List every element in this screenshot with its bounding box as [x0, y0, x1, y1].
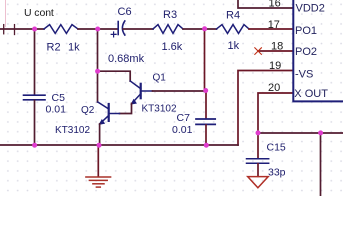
wire C6 to R3: [123, 28, 153, 30]
svg-text:0.68mk: 0.68mk: [108, 53, 145, 65]
op-amp U1 IC body edge: [293, 0, 343, 101]
node R3/R4 junction: [202, 26, 207, 31]
svg-text:C6: C6: [118, 6, 132, 18]
resistor R4: [217, 25, 250, 34]
capacitor C5 plates: [24, 95, 46, 100]
no-connect X on pin 18: [255, 48, 262, 55]
svg-text:R4: R4: [226, 10, 240, 22]
svg-text:-VS: -VS: [295, 69, 313, 81]
svg-text:0.01: 0.01: [46, 104, 67, 116]
tick mark 2 on left wire: [14, 25, 16, 35]
node junction dots: [32, 26, 323, 147]
svg-text:1.6k: 1.6k: [162, 41, 183, 53]
wire R3 to R4: [183, 28, 217, 30]
svg-text:VDD2: VDD2: [296, 3, 325, 15]
faint leftover selection line top-left: [5, 0, 7, 27]
ground (triangle) under C15: [248, 177, 269, 188]
earth ground symbol: [86, 177, 111, 187]
C6 plus sign: [111, 32, 116, 37]
svg-text:20: 20: [268, 82, 280, 94]
svg-text:0.01: 0.01: [172, 124, 193, 136]
wire R3/R4 junction down to node B: [204, 29, 206, 91]
svg-text:R3: R3: [163, 9, 177, 21]
wire R2 to C6: [78, 28, 117, 30]
node C15 junction: [256, 130, 261, 135]
svg-text:Q1: Q1: [153, 72, 167, 83]
wire C7 to bottom net: [205, 125, 207, 145]
bottom ground net wire: [0, 144, 238, 146]
svg-text:KT3102: KT3102: [55, 125, 90, 136]
svg-text:Q2: Q2: [81, 105, 95, 116]
svg-text:PO2: PO2: [295, 46, 317, 58]
resistor R2: [44, 25, 78, 34]
svg-text:R2: R2: [47, 42, 61, 54]
svg-text:C7: C7: [177, 112, 191, 124]
wire top net down to node A: [97, 29, 99, 71]
svg-text:33p: 33p: [268, 167, 286, 179]
node Q2 emitter junction: [97, 143, 102, 148]
wire C15 net to right edge: [258, 132, 343, 134]
resistor R3: [153, 25, 183, 34]
transistor Q2: [98, 102, 120, 124]
wire bottom net to earth ground: [97, 145, 99, 177]
tick mark 1 on left wire: [3, 25, 5, 34]
svg-text:1k: 1k: [228, 40, 240, 52]
capacitor C15 plates: [247, 159, 269, 164]
wire node A to Q1 collector: [98, 71, 131, 81]
wire pin 20 X OUT down to C15 net: [258, 93, 293, 133]
wire Q1 base to node B: [153, 90, 206, 92]
wire C5 to bottom net: [34, 100, 36, 145]
transistor Q1: [130, 81, 152, 104]
capacitor C7 plates: [196, 119, 215, 124]
svg-text:KT3102: KT3102: [142, 104, 177, 115]
svg-text:18: 18: [271, 41, 283, 53]
wire Q1 emitter to Q2 base: [120, 104, 132, 114]
node before C6: [95, 27, 100, 32]
node right-bottom junction: [318, 130, 323, 135]
node top-left junction: [32, 27, 37, 32]
svg-text:19: 19: [269, 60, 281, 72]
wire pin 16 VDD2: [238, 0, 293, 8]
wire node B to C7: [205, 91, 207, 119]
wire pin 18 PO2: [258, 50, 293, 52]
svg-text:17: 17: [268, 19, 280, 31]
node C7 bottom junction: [204, 143, 209, 148]
wire down from C15 net to bottom edge: [320, 133, 322, 196]
wire C5 lead from top net: [34, 29, 36, 95]
svg-text:U cont: U cont: [24, 7, 54, 19]
svg-text:1k: 1k: [68, 42, 80, 54]
node B junction: [203, 88, 208, 93]
svg-text:C5: C5: [52, 92, 66, 104]
wire top net from left edge to C6: [0, 28, 44, 30]
wire C15 to ground: [257, 164, 259, 177]
node bottom-left junction: [32, 143, 37, 148]
svg-text:16: 16: [269, 0, 281, 10]
svg-text:X OUT: X OUT: [294, 88, 328, 100]
capacitor C6 plates: [117, 22, 119, 35]
svg-text:C15: C15: [267, 142, 286, 154]
node A junction: [95, 69, 100, 74]
wire node A down to Q2 collector: [97, 71, 99, 102]
wire R4 to pin 17: [249, 28, 293, 30]
wire pin 19 -VS down to bottom net: [238, 71, 293, 146]
svg-text:PO1: PO1: [295, 25, 317, 37]
wire Q2 emitter to bottom net: [99, 124, 101, 145]
wire C15 lead from net: [257, 133, 259, 158]
